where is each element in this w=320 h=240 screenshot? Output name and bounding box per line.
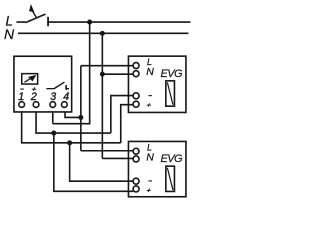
svg-text:N: N (4, 26, 15, 42)
node junction dot L (87, 20, 92, 25)
ballast U2 terminal minus (133, 93, 139, 99)
wire terminal 4 run (65, 111, 81, 117)
wire L rail left segment (16, 21, 25, 23)
label minus over terminal 1 (20, 88, 24, 90)
wire EVG1 minus riser (111, 96, 133, 134)
node junction dot terminal 2 branch (51, 131, 56, 136)
terminal 3 circle (50, 102, 56, 108)
wire terminal 2 run (36, 111, 111, 133)
svg-text:N: N (146, 66, 154, 78)
ballast U2 box (128, 56, 186, 112)
control unit U1 box (14, 56, 72, 112)
wire EVG1 L entry (81, 65, 133, 67)
ballast U3 label minus (148, 180, 152, 182)
wire L drop to terminal 3 (53, 22, 90, 124)
terminal 4 circle (62, 102, 68, 108)
ballast U3 terminal N (133, 156, 139, 162)
control unit internal switch 3-4 (46, 82, 69, 90)
ballast U3 box (128, 141, 186, 196)
node junction dot terminal 1 branch (67, 140, 72, 145)
ballast U3 terminal L (133, 148, 139, 154)
ballast U2 label plus (147, 103, 151, 107)
wire terminal 3 drop (52, 111, 54, 123)
ballast U2 label minus (148, 95, 152, 97)
switch S1 fixed contact tick (47, 17, 49, 26)
ballast U2 terminal N (133, 71, 139, 77)
ballast U3 terminal minus (133, 178, 139, 184)
wire EVG2 L entry (81, 150, 133, 152)
control unit dimmer symbol (22, 74, 38, 84)
wire N rail (18, 32, 189, 34)
wire N drop (101, 33, 103, 158)
ballast U3 lamp symbol (166, 166, 175, 191)
terminal 2 circle (33, 102, 39, 108)
switch S1 blade (25, 14, 45, 23)
terminal 1 circle (19, 102, 25, 108)
node junction dot switched L (78, 115, 83, 120)
wire terminal 1 branch down (70, 143, 134, 181)
wire EVG1 plus riser (121, 105, 134, 143)
ballast U2 terminal L (133, 63, 139, 69)
label plus over terminal 2 (32, 87, 37, 91)
node junction dot N (100, 31, 105, 36)
wire EVG1 N entry (102, 73, 133, 75)
svg-text:EVG: EVG (160, 68, 183, 80)
wire L rail right segment (48, 21, 190, 23)
wire terminal 1 run (22, 111, 121, 142)
svg-text:EVG: EVG (160, 153, 183, 165)
ballast U3 label plus (147, 189, 151, 193)
ballast U3 terminal plus (133, 186, 139, 192)
switch S1 actuator arrow (29, 4, 37, 18)
ballast U2 terminal plus (133, 101, 139, 107)
wire terminal 2 branch down (54, 133, 133, 191)
wire EVG2 N entry (102, 157, 133, 159)
svg-text:N: N (146, 151, 154, 163)
ballast U2 lamp symbol (166, 81, 175, 106)
wire switched L bus (80, 66, 82, 151)
node junction dot N to EVG1 (100, 72, 105, 77)
